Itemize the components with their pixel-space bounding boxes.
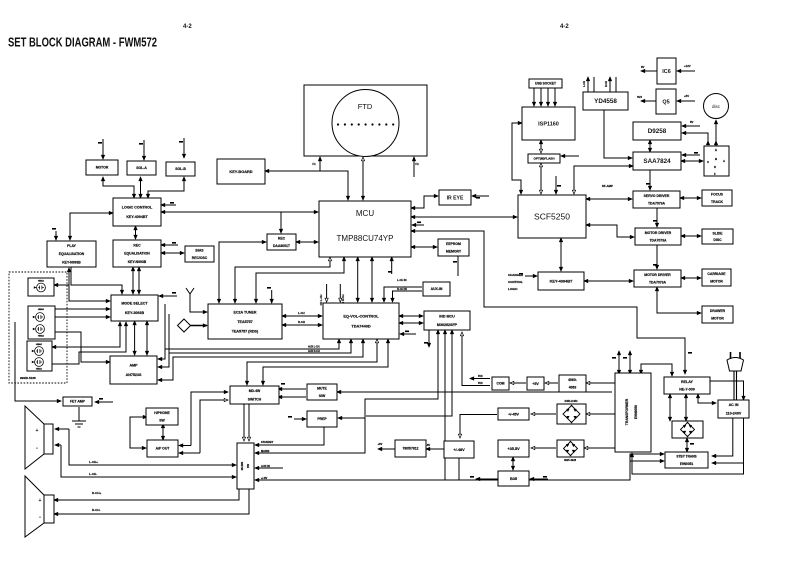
svg-text:AUX IN: AUX IN <box>261 464 270 468</box>
svg-text:HEAD: HEAD <box>36 368 43 371</box>
svg-text:D: D <box>714 165 716 169</box>
svg-text:A/P OUT: A/P OUT <box>156 447 171 451</box>
svg-text:R-CH: R-CH <box>605 81 608 87</box>
svg-text:SW: SW <box>159 419 165 423</box>
svg-text:SOL-B: SOL-B <box>175 167 186 171</box>
svg-text:USB SOCKET: USB SOCKET <box>535 82 556 86</box>
svg-text:KEY-4094BT: KEY-4094BT <box>550 278 573 283</box>
svg-text:E: E <box>715 148 717 152</box>
svg-text:CHANGER: CHANGER <box>508 273 524 277</box>
svg-text:FET AMP: FET AMP <box>70 400 86 404</box>
svg-text:MCU: MCU <box>356 209 374 218</box>
svg-text:EEPROM: EEPROM <box>446 242 461 246</box>
svg-text:F: F <box>714 172 716 176</box>
svg-text:AC IN: AC IN <box>729 403 739 407</box>
svg-text:AUX-IN: AUX-IN <box>431 287 443 291</box>
svg-text:SERVO DRIVER: SERVO DRIVER <box>644 194 670 198</box>
svg-text:PLAY: PLAY <box>67 244 76 248</box>
svg-text:4-2: 4-2 <box>183 24 192 30</box>
svg-text:RF-AMP: RF-AMP <box>602 184 613 188</box>
svg-text:D451-D454: D451-D454 <box>565 400 578 403</box>
svg-text:F2: F2 <box>415 162 419 166</box>
svg-text:CARRIAGE: CARRIAGE <box>707 272 726 276</box>
svg-text:AUX R-CH: AUX R-CH <box>308 350 320 353</box>
svg-text:AN7523S: AN7523S <box>126 373 142 377</box>
svg-text:MAINS: MAINS <box>261 449 270 453</box>
svg-text:HEAD: HEAD <box>38 335 45 338</box>
svg-text:MOTOR DRIVER: MOTOR DRIVER <box>644 273 671 277</box>
svg-text:8V: 8V <box>690 120 694 124</box>
svg-text:MOTOR DRIVER: MOTOR DRIVER <box>645 231 672 235</box>
svg-text:L-CH: L-CH <box>298 311 305 315</box>
svg-text:999ID-5168: 999ID-5168 <box>20 376 36 380</box>
svg-text:5VD: 5VD <box>478 382 483 385</box>
svg-text:R-CH+: R-CH+ <box>92 491 101 495</box>
svg-text:MD-4W: MD-4W <box>249 389 261 393</box>
svg-text:OPT(M)FLASH: OPT(M)FLASH <box>533 157 554 161</box>
svg-text:E9N0050: E9N0050 <box>634 405 638 419</box>
svg-text:REC/OSC: REC/OSC <box>192 256 208 260</box>
svg-text:EC2A TUNER: EC2A TUNER <box>233 310 256 314</box>
svg-text:TDA7073A: TDA7073A <box>649 239 667 243</box>
svg-text:TMP88CU74YP: TMP88CU74YP <box>337 234 394 243</box>
svg-text:H/PHONE: H/PHONE <box>154 411 170 415</box>
svg-text:disc: disc <box>712 104 721 109</box>
svg-text:+/-48V: +/-48V <box>453 447 465 452</box>
svg-text:D9258: D9258 <box>648 128 667 135</box>
svg-text:SCF5250: SCF5250 <box>534 212 570 222</box>
svg-text:YD4558: YD4558 <box>594 98 617 105</box>
svg-text:M30262SFP: M30262SFP <box>437 323 458 327</box>
svg-text:LOGIC: LOGIC <box>508 287 518 291</box>
svg-text:KEY-3093B: KEY-3093B <box>125 311 145 315</box>
svg-text:+/-45V: +/-45V <box>508 412 519 416</box>
svg-text:+/-8V: +/-8V <box>261 476 268 480</box>
svg-text:PREP: PREP <box>317 417 327 421</box>
svg-text:+35.5V: +35.5V <box>507 446 520 451</box>
svg-text:REC: REC <box>278 237 286 241</box>
svg-text:4-2: 4-2 <box>560 24 569 30</box>
svg-text:8V: 8V <box>641 65 645 69</box>
svg-text:KEY-4094BT: KEY-4094BT <box>126 215 148 219</box>
svg-text:IND MCU: IND MCU <box>439 314 455 318</box>
svg-text:R-CH: R-CH <box>298 320 305 324</box>
svg-text:R-CH IN: R-CH IN <box>397 287 407 291</box>
svg-text:MUTE: MUTE <box>317 387 327 391</box>
svg-text:TEA5757 (RDS): TEA5757 (RDS) <box>232 329 259 333</box>
svg-text:F1: F1 <box>312 162 316 166</box>
svg-text:+5V: +5V <box>532 382 539 386</box>
svg-text:L-CH: L-CH <box>583 81 586 87</box>
svg-text:-: - <box>36 446 38 452</box>
svg-text:CONTROL: CONTROL <box>508 280 523 284</box>
svg-text:4925-4928: 4925-4928 <box>564 459 577 462</box>
svg-text:E9N0051: E9N0051 <box>680 462 694 466</box>
svg-text:B35: B35 <box>510 476 518 481</box>
svg-text:C: C <box>707 160 709 164</box>
svg-text:KEY-N093B: KEY-N093B <box>128 260 147 264</box>
svg-text:Q5: Q5 <box>662 99 669 105</box>
svg-text:AMP: AMP <box>129 364 138 368</box>
svg-text:ISP1160: ISP1160 <box>538 121 559 127</box>
svg-text:B: B <box>715 157 717 161</box>
svg-text:SAA7824: SAA7824 <box>643 158 671 165</box>
svg-text:-: - <box>39 515 41 521</box>
svg-text:A: A <box>723 159 725 163</box>
svg-text:MOTOR: MOTOR <box>710 280 723 284</box>
svg-text:TDA7073A: TDA7073A <box>648 202 666 206</box>
svg-text:TDA7449D: TDA7449D <box>351 323 371 328</box>
svg-text:LOGIC CONTROL: LOGIC CONTROL <box>122 206 153 210</box>
svg-text:FTD: FTD <box>358 102 373 111</box>
svg-text:DISC: DISC <box>713 238 722 242</box>
svg-text:HEAD: HEAD <box>36 343 43 346</box>
svg-text:+8V: +8V <box>378 442 383 446</box>
svg-text:IR EYE: IR EYE <box>447 195 464 201</box>
svg-text:4063: 4063 <box>569 386 577 390</box>
svg-text:COM: COM <box>497 382 505 386</box>
svg-text:HEAD: HEAD <box>38 280 45 283</box>
svg-text:SLIDE: SLIDE <box>712 231 723 235</box>
svg-text:MEMORY: MEMORY <box>446 250 462 254</box>
svg-text:DRAWER: DRAWER <box>710 309 726 313</box>
svg-text:STANDBY: STANDBY <box>261 440 274 444</box>
svg-text:REC: REC <box>133 243 141 247</box>
svg-text:+: + <box>39 498 42 504</box>
svg-text:L-CH-: L-CH- <box>89 472 97 476</box>
svg-text:TRANSFORMER: TRANSFORMER <box>625 398 629 425</box>
svg-text:L-CH+: L-CH+ <box>89 460 98 464</box>
svg-text:4060-: 4060- <box>568 378 577 382</box>
svg-text:5VD: 5VD <box>478 375 483 378</box>
svg-text:FOCUS: FOCUS <box>711 193 724 197</box>
svg-text:MODE SELECT: MODE SELECT <box>121 302 148 306</box>
svg-text:KEY-N093B: KEY-N093B <box>62 260 81 264</box>
svg-text:S/W: S/W <box>319 394 326 398</box>
svg-text:SET BLOCK DIAGRAM - FWM572: SET BLOCK DIAGRAM - FWM572 <box>8 35 157 50</box>
svg-text:EQUALISATION: EQUALISATION <box>59 252 85 256</box>
svg-text:SW: SW <box>246 463 250 468</box>
svg-text:MOTOR: MOTOR <box>711 317 724 321</box>
svg-text:7805/7812: 7805/7812 <box>402 447 418 451</box>
svg-text:R-CH-: R-CH- <box>92 508 101 512</box>
svg-text:SOL-A: SOL-A <box>136 166 147 170</box>
svg-text:TRACK: TRACK <box>711 200 723 204</box>
svg-text:110-240V: 110-240V <box>726 411 742 415</box>
svg-text:3V3: 3V3 <box>637 95 642 99</box>
svg-text:NE-7-009: NE-7-009 <box>679 388 695 392</box>
svg-text:SWITCH: SWITCH <box>248 397 262 401</box>
svg-text:EQ-VOL-CONTROL: EQ-VOL-CONTROL <box>343 313 379 318</box>
svg-text:MAINS: MAINS <box>240 462 244 471</box>
svg-text:EQUALISATION: EQUALISATION <box>124 252 150 256</box>
svg-text:BIAS: BIAS <box>195 249 204 253</box>
svg-text:+5V: +5V <box>684 94 689 98</box>
svg-text:KEY-BOARD: KEY-BOARD <box>229 169 252 174</box>
svg-text:HEAD: HEAD <box>38 308 45 311</box>
svg-text:TDA7073A: TDA7073A <box>649 281 667 285</box>
svg-text:L-CH IN: L-CH IN <box>397 278 407 282</box>
svg-text:RELAY: RELAY <box>681 380 694 384</box>
svg-text:STBY TRANS: STBY TRANS <box>676 454 696 458</box>
svg-text:MOTOR: MOTOR <box>96 166 109 170</box>
svg-text:+12V: +12V <box>684 64 691 68</box>
svg-text:+: + <box>36 428 39 434</box>
svg-text:AUX L-CH: AUX L-CH <box>308 346 320 349</box>
svg-text:DAA8001T: DAA8001T <box>273 244 291 248</box>
svg-text:TEA5757: TEA5757 <box>237 320 252 324</box>
svg-text:IC6: IC6 <box>662 69 671 75</box>
svg-text:CD L-CH: CD L-CH <box>319 295 323 306</box>
